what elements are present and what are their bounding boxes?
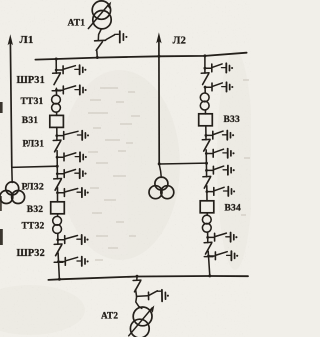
wire right branch seg9 xyxy=(208,251,210,276)
wire line Л1 xyxy=(10,43,11,168)
wire АТ1 to bus xyxy=(96,51,99,58)
tick АТ1 junction xyxy=(95,39,106,42)
disconnector ШР32 xyxy=(54,244,62,256)
transformer T2 (three-winding) xyxy=(149,177,174,199)
earthing switch В31 side xyxy=(55,131,89,140)
disconnector ШР33 xyxy=(201,73,209,85)
earthing switch РЛ32 upper xyxy=(56,169,87,178)
current transformer ТТ32 xyxy=(53,216,62,233)
wire right branch seg7 xyxy=(206,213,208,215)
junction mid tie right xyxy=(205,162,208,165)
arrow through АТ2 (tap changer) xyxy=(129,305,155,335)
circuit breaker В34 xyxy=(200,201,214,213)
earthing switch ШР32 lower xyxy=(54,257,88,266)
earthing switch РЛ34 upper xyxy=(205,166,235,175)
earthing switch РЛ32 lower xyxy=(56,188,89,197)
earthing switch ШР34 lower xyxy=(204,251,238,260)
disconnector ШР31 xyxy=(53,73,61,85)
junction right branch on top bus xyxy=(203,54,206,57)
junction АТ2 on bottom bus xyxy=(136,275,139,278)
wire right branch seg2 xyxy=(204,86,206,92)
autotransformer АТ1 xyxy=(92,1,111,29)
wire left branch seg1 xyxy=(55,59,57,73)
disconnector РЛ32 xyxy=(54,179,62,191)
wire АТ2 drop xyxy=(136,276,138,280)
circuit breaker В31 xyxy=(50,115,64,127)
wire left branch seg6 xyxy=(57,188,59,202)
wire left branch seg8 xyxy=(57,234,59,245)
scan edge mark left 3 xyxy=(0,229,3,245)
wire АТ1 drop xyxy=(98,29,101,41)
disconnector РЛ34 xyxy=(203,176,211,188)
line Л2 arrow xyxy=(156,32,161,43)
disconnector АТ2 xyxy=(133,280,141,292)
paper background xyxy=(0,0,251,337)
wire right branch seg3 xyxy=(204,110,206,114)
busbar bottom xyxy=(48,276,248,280)
earthing switch ШР33 upper xyxy=(204,63,234,72)
earthing switch РЛ33 lower xyxy=(205,149,235,158)
earthing switch ШР32 upper xyxy=(56,235,88,244)
transformer T1 (three-winding) xyxy=(0,182,25,204)
wire left branch seg3 xyxy=(56,112,58,115)
paper grain xyxy=(0,0,251,337)
busbar top xyxy=(35,53,246,60)
earthing switch ШР31 lower xyxy=(52,85,86,94)
wire mid tie left xyxy=(12,166,58,167)
arrow through АТ1 (tap changer) xyxy=(88,2,111,29)
circuit breaker В33 xyxy=(199,114,213,126)
earthing switch ШР31 upper xyxy=(55,65,87,74)
wire right branch seg8 xyxy=(207,232,209,242)
wire mid tie right xyxy=(159,162,206,165)
wire left branch seg9 xyxy=(58,253,59,280)
earthing switch РЛ34 lower xyxy=(206,187,236,196)
wire Л1 to transformer T1 xyxy=(11,167,13,182)
line Л1 arrow xyxy=(8,34,13,45)
wire left branch seg5 xyxy=(56,151,58,179)
disconnector АТ1 xyxy=(96,42,102,51)
earthing switch В33 side xyxy=(205,131,235,140)
junction left branch on top bus xyxy=(55,58,58,61)
wire АТ2 mid xyxy=(136,290,137,297)
wire left branch seg4 xyxy=(56,127,58,140)
wire right branch seg1 xyxy=(204,56,206,73)
bleed-through ghost text xyxy=(88,80,250,260)
wire АТ2 to transformer xyxy=(136,297,142,309)
disconnector ШР34 xyxy=(204,242,212,254)
disconnector РЛ33 xyxy=(202,139,210,151)
circuit breaker В32 xyxy=(51,202,65,214)
disconnector РЛ31 xyxy=(53,140,61,152)
wire right branch seg4 xyxy=(205,126,207,140)
wire left branch seg7 xyxy=(57,214,59,216)
wire right branch seg6 xyxy=(206,186,208,201)
scan edge mark left 1 xyxy=(0,102,3,113)
junction left branch on bottom bus xyxy=(58,278,61,281)
earthing switch ШР33 lower xyxy=(204,82,234,91)
junction mid tie left xyxy=(56,165,59,168)
wire Л2 to transformer T2 xyxy=(159,164,161,177)
earthing switch АТ2 xyxy=(137,290,169,302)
current transformer ТТ31 xyxy=(52,95,61,112)
junction АТ1 on top bus xyxy=(96,56,99,59)
earthing switch РЛ31 lower xyxy=(56,152,87,161)
wire right branch seg5 xyxy=(205,150,207,177)
scan shading xyxy=(0,50,253,335)
scan edge mark left 2 xyxy=(0,196,2,211)
junction Л2 on top bus xyxy=(158,55,161,58)
earthing switch АТ1 xyxy=(106,31,127,42)
junction right branch on bottom bus xyxy=(208,274,211,277)
junction mid tie xyxy=(158,162,161,165)
current transformer ТТ34 xyxy=(202,215,211,232)
earthing switch ШР34 upper xyxy=(206,233,237,242)
wire line Л2 xyxy=(158,41,160,164)
wire left branch seg2 xyxy=(55,88,57,95)
current transformer ТТ33 xyxy=(200,93,209,110)
autotransformer АТ2 xyxy=(130,307,152,337)
